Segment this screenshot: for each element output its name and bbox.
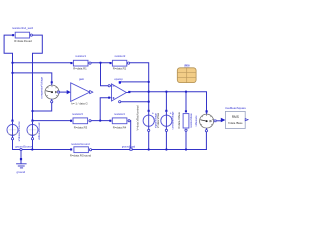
svg-text:R=data.R4: R=data.R4 [113, 125, 127, 129]
svg-text:R=data.R3: R=data.R3 [74, 125, 88, 129]
wire [185, 92, 187, 111]
wire [165, 92, 167, 110]
wire row2 [33, 120, 71, 122]
junction node G (output bus / feedback column) [148, 91, 150, 93]
wire node bus1 [13, 62, 71, 64]
svg-text:uMeasureLoad: uMeasureLoad [37, 122, 41, 140]
wire [205, 132, 207, 150]
resistor R_load top-left [12, 26, 33, 43]
svg-text:k=-1 / data.G: k=-1 / data.G [71, 102, 87, 106]
svg-text:resistorMeas: resistorMeas [190, 113, 193, 128]
junction node A (left column / top bus) [11, 62, 13, 64]
voltage sensor gauge2 (bottom right) [195, 110, 216, 131]
svg-text:R=data.RLoad: R=data.RLoad [14, 39, 32, 43]
resistor R1 [70, 54, 91, 71]
wire node out bus [130, 92, 207, 111]
RMS block [221, 106, 248, 129]
svg-text:groundSource: groundSource [15, 145, 32, 149]
svg-text:resistor4: resistor4 [114, 112, 125, 116]
op-amp U1 [108, 77, 130, 103]
svg-text:V=data.VBattNominal: V=data.VBattNominal [135, 105, 139, 130]
junction node I (output bus / circle2 branch) [165, 91, 167, 93]
svg-text:resistor3: resistor3 [72, 112, 83, 116]
junction node K (ground bus / circle B branch) [31, 148, 33, 150]
wire [59, 91, 67, 93]
gain block [67, 77, 93, 106]
svg-text:R=data.R1: R=data.R1 [73, 67, 87, 71]
wire [31, 35, 42, 120]
wire [129, 63, 148, 110]
wire ground bus left [13, 140, 71, 150]
svg-text:uMeasureSource: uMeasureSource [17, 121, 21, 141]
junction node H (opamp bottom pin / feedback column) [148, 101, 150, 103]
junction node M (ground bus / circle2 branch) [165, 148, 167, 150]
resistor R4 row2 [109, 112, 130, 129]
ground [15, 145, 32, 175]
voltage source circle2 [157, 110, 175, 132]
junction node E (sensor bottom / circle B wire) [31, 110, 33, 112]
svg-text:V=data.VBias: V=data.VBias [157, 112, 160, 128]
voltage sensor gauge V1 (center) [40, 76, 60, 102]
sensor circle A (bottom left) [7, 120, 21, 142]
wire [216, 120, 221, 122]
wire [101, 63, 109, 86]
wire [129, 121, 132, 149]
ground load pin [122, 146, 136, 151]
wire [120, 81, 149, 83]
wire [165, 131, 167, 149]
svg-text:R=data.RMeas: R=data.RMeas [178, 111, 181, 128]
wire [91, 62, 110, 64]
resistor R2 [110, 54, 130, 71]
wire [91, 120, 110, 122]
wire [4, 35, 13, 120]
svg-text:comparatorVoltage: comparatorVoltage [40, 76, 44, 98]
junction node D (R3-R4 / opamp p input) [99, 119, 101, 121]
junction node C (R1-R2 / opamp n input) [99, 62, 101, 64]
svg-text:R=data.RGround: R=data.RGround [70, 154, 92, 158]
junction node B (left column / sensor wire) [11, 72, 13, 74]
wire ground bus right [91, 149, 206, 151]
wire [120, 101, 149, 103]
wire [33, 103, 52, 111]
wire [100, 98, 108, 121]
wire [13, 73, 52, 82]
svg-text:data: data [184, 63, 190, 67]
resistor R3 row2 [70, 112, 91, 129]
wire [148, 131, 150, 149]
wire ground stub [20, 150, 22, 163]
junction node J (output bus / measuring resistor branch) [185, 91, 187, 93]
svg-text:resistor2: resistor2 [115, 54, 126, 58]
resistor RGround on ground bus [70, 142, 92, 158]
svg-text:gain: gain [79, 77, 85, 81]
junction node F (opamp top pin / feedback column) [148, 81, 150, 83]
junction node N (ground bus / measuring resistor branch) [185, 148, 187, 150]
svg-text:constantVoltage: constantVoltage [172, 111, 175, 129]
svg-text:resistor1: resistor1 [75, 54, 86, 58]
svg-text:vMeasure: vMeasure [195, 115, 198, 127]
svg-text:ground: ground [17, 170, 26, 174]
vertical resistor R5 [178, 110, 193, 131]
svg-text:opamp: opamp [114, 77, 123, 81]
wire [185, 130, 187, 149]
svg-text:resistorInd_swd: resistorInd_swd [12, 26, 33, 30]
data record [177, 63, 196, 83]
svg-text:resistorGround: resistorGround [71, 142, 90, 146]
wire [32, 140, 34, 150]
junction node L (ground bus / circle1 branch) [148, 148, 150, 150]
svg-text:groundLoad: groundLoad [122, 146, 136, 149]
sensor circle B (bottom left) [27, 120, 41, 140]
svg-text:trueMeanSquare: trueMeanSquare [225, 106, 246, 110]
svg-text:f=data.fBase: f=data.fBase [228, 121, 243, 125]
svg-text:R=data.R2: R=data.R2 [113, 67, 127, 71]
svg-text:RMS: RMS [232, 115, 239, 119]
voltage source circle1 [135, 105, 157, 131]
